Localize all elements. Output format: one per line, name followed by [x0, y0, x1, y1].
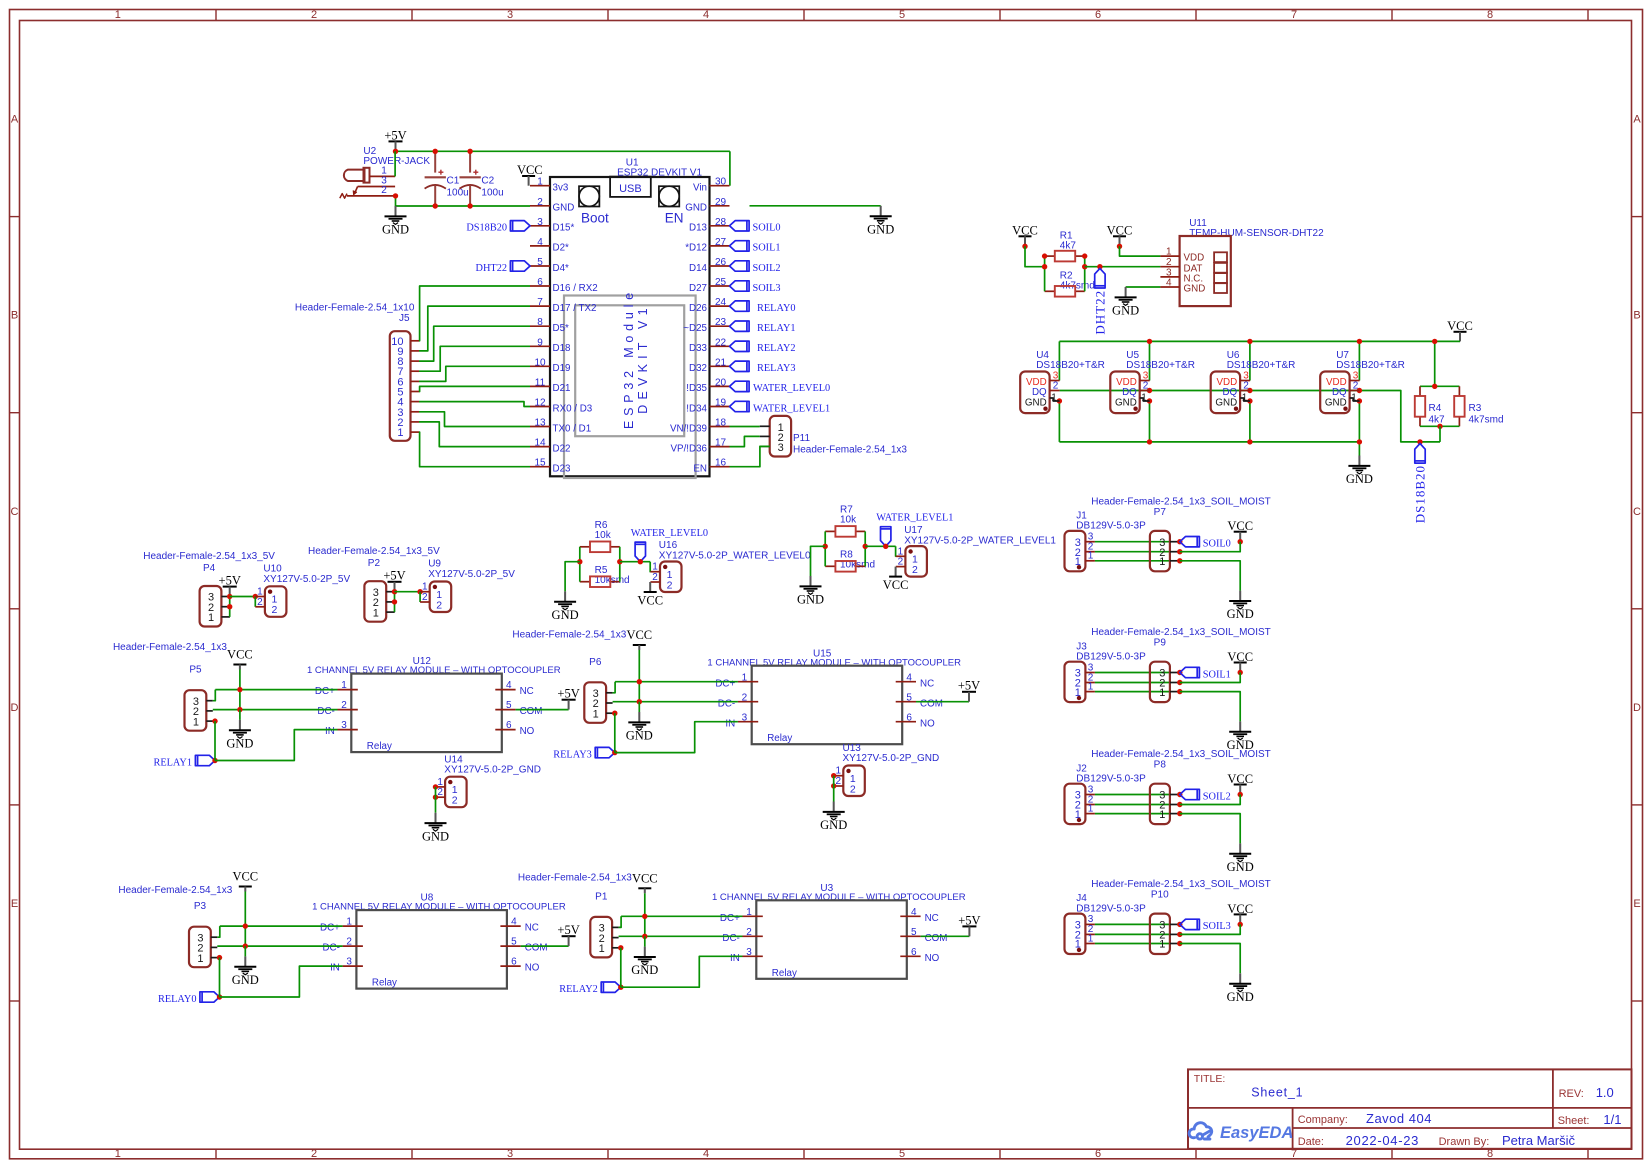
wire relay flag to IN [215, 730, 338, 761]
svg-text:14: 14 [534, 438, 546, 449]
wire header pin2 to DC- [213, 709, 338, 711]
svg-text:DS18B20: DS18B20 [466, 223, 507, 234]
svg-text:Date:: Date: [1298, 1136, 1324, 1148]
svg-text:COM: COM [920, 698, 943, 709]
svg-text:DS18B20+T&R: DS18B20+T&R [1227, 360, 1296, 371]
resistor R4 4k7 [1419, 386, 1421, 396]
svg-text:3: 3 [507, 1148, 513, 1160]
svg-text:Header-Female-2.54_1x3: Header-Female-2.54_1x3 [113, 642, 227, 653]
svg-text:EN: EN [665, 211, 684, 226]
svg-text:NO: NO [920, 718, 935, 729]
net flag DS18B20 (pull-up) [1415, 444, 1425, 464]
svg-text:NO: NO [525, 963, 540, 974]
svg-text:29: 29 [715, 197, 727, 208]
svg-text:U17: U17 [904, 525, 923, 536]
wire pin18 to P11.1 [730, 426, 760, 428]
svg-text:RELAY3: RELAY3 [553, 749, 592, 760]
svg-text:DS18B20+T&R: DS18B20+T&R [1036, 360, 1105, 371]
svg-text:2: 2 [1143, 381, 1149, 392]
svg-text:TEMP-HUM-SENSOR-DHT22: TEMP-HUM-SENSOR-DHT22 [1189, 228, 1324, 239]
wire pin17 to P11.2 [730, 436, 760, 446]
wire to connector pin1 [895, 546, 897, 556]
svg-text:P6: P6 [589, 657, 602, 668]
svg-text:1: 1 [1159, 556, 1165, 568]
svg-text:1: 1 [1088, 803, 1094, 814]
svg-text:1: 1 [373, 607, 379, 619]
svg-text:2: 2 [652, 572, 658, 583]
svg-text:1: 1 [1351, 393, 1357, 404]
wire U4 GND drop [1058, 401, 1060, 442]
svg-text:2: 2 [742, 692, 748, 703]
wire divider to ground [811, 546, 826, 576]
EN button [659, 186, 679, 206]
svg-text:+5V: +5V [958, 679, 980, 693]
svg-text:NC: NC [925, 913, 939, 924]
net flag SOIL2 [1180, 789, 1200, 799]
svg-text:IN: IN [725, 718, 735, 729]
svg-text:GND: GND [626, 729, 653, 743]
svg-text:VCC: VCC [883, 578, 909, 592]
svg-text:3: 3 [341, 720, 347, 731]
svg-text:5: 5 [899, 1148, 905, 1160]
wire VCC to row2 [1180, 924, 1240, 934]
net flag RELAY1 [195, 755, 215, 765]
svg-text:8: 8 [1487, 1148, 1493, 1160]
ground (relay VCC column) [244, 946, 246, 956]
svg-text:GND: GND [1346, 472, 1373, 486]
svg-text:Header-Female-2.54_1x3_SOIL_MO: Header-Female-2.54_1x3_SOIL_MOIST [1091, 879, 1271, 890]
svg-text:4: 4 [506, 680, 512, 691]
svg-text:Zavod 404: Zavod 404 [1366, 1111, 1432, 1126]
svg-text:6: 6 [537, 277, 543, 288]
wire pin29 GND [750, 205, 881, 207]
wire J to P row2 [1095, 682, 1170, 684]
svg-text:DB129V-5.0-3P: DB129V-5.0-3P [1076, 774, 1146, 785]
svg-text:R3: R3 [1469, 403, 1482, 414]
svg-text:SOIL0: SOIL0 [753, 223, 781, 234]
wire J5.9 to D17/TX2 [419, 306, 530, 351]
svg-text:2: 2 [422, 592, 428, 603]
wire to U10 [230, 596, 256, 598]
wire divider right link [864, 531, 866, 566]
svg-text:+5V: +5V [383, 569, 405, 583]
svg-text:P8: P8 [1154, 760, 1167, 771]
wire header pin2 to DC- [217, 945, 342, 947]
svg-text:+5V: +5V [219, 574, 241, 588]
wire VCC column [638, 682, 640, 702]
svg-text:VDD: VDD [1184, 253, 1205, 264]
wire header pin2 to DC- [613, 701, 738, 703]
svg-text:XY127V-5.0-2P_GND: XY127V-5.0-2P_GND [843, 753, 940, 764]
net flag SOIL1 [1180, 667, 1200, 677]
wire J to P row1 [1095, 691, 1170, 693]
svg-text:10k: 10k [595, 530, 612, 541]
svg-text:+5V: +5V [557, 923, 579, 937]
svg-text:IN: IN [730, 953, 740, 964]
connector P header (SOIL0) [1150, 531, 1170, 571]
wire R1/R2 right link [1084, 256, 1086, 291]
wire to connector pin2 [254, 597, 256, 607]
wire row1 to ground [1180, 814, 1240, 844]
svg-text:COM: COM [925, 933, 948, 944]
svg-text:P1: P1 [595, 891, 608, 902]
net flag RELAY3 [595, 747, 615, 757]
svg-text:NO: NO [520, 726, 535, 737]
svg-text:1: 1 [1088, 933, 1094, 944]
wire jack pin2 to GND rail [395, 196, 397, 206]
svg-text:GND: GND [820, 818, 847, 832]
svg-text:6: 6 [1095, 9, 1101, 21]
wire header pins common [229, 597, 231, 617]
svg-text:DC-: DC- [322, 943, 339, 954]
svg-text:Header-Female-2.54_1x3: Header-Female-2.54_1x3 [793, 445, 907, 456]
wire DQ bus [1060, 391, 1440, 442]
svg-text:5: 5 [537, 257, 543, 268]
wire U6 GND drop [1249, 401, 1251, 442]
ground (soil) [1239, 973, 1241, 983]
power flag VCC (divider) [649, 582, 651, 592]
svg-text:5: 5 [911, 927, 917, 938]
wire divider right link [619, 547, 621, 582]
svg-text:B: B [1633, 310, 1640, 322]
svg-text:P9: P9 [1154, 638, 1167, 649]
svg-text:8: 8 [1487, 9, 1493, 21]
svg-text:Relay: Relay [372, 978, 397, 989]
svg-text:XY127V-5.0-2P_WATER_LEVEL1: XY127V-5.0-2P_WATER_LEVEL1 [904, 535, 1056, 546]
wire header pin3 to DC+ [613, 682, 616, 693]
svg-text:D26: D26 [689, 303, 708, 314]
svg-text:2: 2 [311, 1148, 317, 1160]
svg-text:2: 2 [850, 783, 856, 795]
wire J to P row3 [1095, 672, 1170, 674]
svg-text:Relay: Relay [772, 968, 797, 979]
svg-text:2: 2 [381, 185, 387, 196]
svg-text:D13: D13 [689, 223, 708, 234]
svg-text:Header-Female-2.54_1x3: Header-Female-2.54_1x3 [118, 885, 232, 896]
svg-text:5: 5 [906, 692, 912, 703]
svg-text:4: 4 [911, 907, 917, 918]
svg-text:D19: D19 [553, 363, 571, 374]
net flag WATER_LEVEL0 (ESP32) [730, 381, 750, 391]
svg-text:2: 2 [746, 927, 752, 938]
svg-text:Header-Female-2.54_1x3: Header-Female-2.54_1x3 [512, 630, 626, 641]
wire J5.2 to D22 [419, 422, 530, 447]
wire header pin3 to DC+ [213, 690, 216, 701]
wire divider left link [579, 547, 581, 582]
wire row1 to ground [1180, 692, 1240, 722]
svg-text:1: 1 [341, 680, 347, 691]
svg-text:P3: P3 [194, 901, 207, 912]
svg-text:D15*: D15* [553, 223, 575, 234]
svg-text:5: 5 [899, 9, 905, 21]
svg-text:NC: NC [525, 923, 539, 934]
svg-text:Company:: Company: [1298, 1114, 1348, 1126]
svg-text:2: 2 [346, 937, 352, 948]
svg-text:VCC: VCC [227, 648, 253, 662]
svg-text:4: 4 [537, 237, 543, 248]
svg-text:Header-Female-2.54_1x3_5V: Header-Female-2.54_1x3_5V [143, 551, 275, 562]
svg-text:GND: GND [232, 973, 259, 987]
wire J to P row1 [1095, 813, 1170, 815]
svg-text:GND: GND [867, 222, 894, 236]
wire header pins common [394, 592, 396, 612]
svg-text:D18: D18 [553, 343, 572, 354]
svg-text:EasyEDA: EasyEDA [1220, 1124, 1293, 1142]
wire U7 GND drop [1358, 401, 1360, 442]
wire relay flag to IN [621, 956, 743, 987]
svg-text:P4: P4 [203, 563, 216, 574]
svg-text:+5V: +5V [958, 913, 980, 927]
svg-text:2: 2 [341, 700, 347, 711]
svg-text:2022-04-23: 2022-04-23 [1346, 1133, 1420, 1148]
net flag DS18B20 (pin D15*) [510, 221, 530, 231]
svg-text:XY127V-5.0-2P_5V: XY127V-5.0-2P_5V [263, 574, 350, 585]
svg-text:Petra Maršič: Petra Maršič [1502, 1133, 1575, 1148]
svg-text:4: 4 [703, 9, 709, 21]
connector P header (SOIL2) [1150, 784, 1170, 824]
wire header pin1 to relay flag [612, 711, 617, 716]
svg-text:27: 27 [715, 237, 727, 248]
svg-text:2: 2 [257, 597, 263, 608]
svg-text:1: 1 [397, 427, 403, 439]
wire COM to +5V [521, 945, 569, 947]
svg-text:J5: J5 [399, 313, 410, 324]
power flag VCC (divider) [895, 567, 897, 577]
svg-text:5: 5 [511, 937, 517, 948]
ground (divider) [810, 576, 812, 586]
svg-text:1: 1 [1159, 939, 1165, 951]
net flag DHT22 (pin D4*) [510, 261, 530, 271]
wire U7 VDD riser [1358, 341, 1360, 380]
svg-text:!D35: !D35 [686, 383, 707, 394]
wire connector pins common [831, 773, 836, 778]
wire J to P row1 [1095, 943, 1170, 945]
svg-text:6: 6 [911, 947, 917, 958]
svg-text:3: 3 [537, 217, 543, 228]
svg-text:SOIL3: SOIL3 [753, 283, 781, 294]
title block [1188, 1069, 1632, 1148]
svg-text:7: 7 [1291, 9, 1297, 21]
svg-text:!D34: !D34 [686, 403, 707, 414]
net flag SOIL3 (ESP32) [730, 281, 750, 291]
wire J to P row2 [1095, 551, 1170, 553]
svg-text:P5: P5 [189, 665, 202, 676]
svg-text:D16 / RX2: D16 / RX2 [553, 283, 598, 294]
wire to connector pin2 [419, 592, 421, 602]
svg-text:VP/!D36: VP/!D36 [671, 443, 708, 454]
net flag RELAY3 (ESP32) [730, 361, 750, 371]
svg-text:4: 4 [1166, 278, 1172, 289]
wire R4/R3 bottom bracket [1420, 425, 1459, 427]
wire VCC to row2 [1180, 795, 1240, 805]
svg-text:D14: D14 [689, 263, 708, 274]
wire DAT net [1085, 266, 1161, 268]
connector P header (SOIL3) [1150, 914, 1170, 954]
svg-text:10: 10 [534, 357, 546, 368]
svg-text:E: E [1633, 898, 1640, 910]
wire J to P row2 [1095, 804, 1170, 806]
ground (U14) [435, 813, 437, 823]
svg-text:GND: GND [1227, 607, 1254, 621]
svg-text:COM: COM [520, 706, 543, 717]
svg-text:GND: GND [1227, 990, 1254, 1004]
svg-text:WATER_LEVEL0: WATER_LEVEL0 [753, 383, 830, 394]
wire to connector pin1 [649, 562, 651, 572]
svg-text:1: 1 [1242, 393, 1248, 404]
svg-text:7: 7 [1291, 1148, 1297, 1160]
svg-text:7: 7 [537, 297, 543, 308]
svg-text:18: 18 [715, 418, 727, 429]
svg-text:RELAY2: RELAY2 [757, 343, 796, 354]
EasyEDA logo [1189, 1123, 1212, 1139]
ground (soil) [1239, 591, 1241, 601]
svg-text:Header-Female-2.54_1x3_5V: Header-Female-2.54_1x3_5V [308, 546, 440, 557]
wire J to P row2 [1095, 933, 1170, 935]
svg-text:GND: GND [685, 203, 707, 214]
svg-text:17: 17 [715, 438, 727, 449]
svg-text:XY127V-5.0-2P_GND: XY127V-5.0-2P_GND [444, 764, 541, 775]
svg-text:COM: COM [525, 943, 548, 954]
net flag WATER_LEVEL1 (ESP32) [730, 401, 750, 411]
svg-text:RELAY0: RELAY0 [158, 994, 197, 1005]
wire header pin3 to DC+ [217, 926, 220, 937]
svg-text:2: 2 [311, 9, 317, 21]
wire connector to ground [435, 797, 437, 813]
resistor R3 4k7smd [1458, 386, 1460, 396]
svg-text:IN: IN [330, 963, 340, 974]
svg-text:DC+: DC+ [315, 686, 335, 697]
ESP32 inner module outline [564, 296, 696, 479]
svg-text:16: 16 [715, 458, 727, 469]
svg-text:+5V: +5V [557, 687, 579, 701]
wire connector to ground [833, 786, 835, 802]
svg-text:RELAY2: RELAY2 [559, 984, 598, 995]
svg-text:1: 1 [593, 708, 599, 720]
svg-text:Header-Female-2.54_1x10: Header-Female-2.54_1x10 [295, 303, 415, 314]
svg-text:1: 1 [1051, 393, 1057, 404]
svg-text:D32: D32 [689, 363, 707, 374]
net flag SOIL2 (ESP32) [730, 261, 750, 271]
svg-text:DB129V-5.0-3P: DB129V-5.0-3P [1076, 652, 1146, 663]
svg-text:E: E [11, 898, 18, 910]
net flag DHT22 (sensor) [1095, 268, 1105, 288]
svg-text:11: 11 [535, 377, 546, 388]
svg-text:RELAY0: RELAY0 [757, 303, 796, 314]
net flag RELAY2 [601, 982, 621, 992]
svg-text:4: 4 [906, 672, 912, 683]
svg-text:D5*: D5* [553, 323, 570, 334]
svg-text:DQ: DQ [1222, 387, 1237, 398]
svg-text:1.0: 1.0 [1596, 1085, 1614, 1100]
svg-text:DC-: DC- [718, 698, 735, 709]
svg-text:P7: P7 [1154, 507, 1167, 518]
svg-text:RX0 / D3: RX0 / D3 [553, 403, 593, 414]
svg-text:DC+: DC+ [715, 678, 735, 689]
svg-text:DQ: DQ [1032, 387, 1047, 398]
ground (relay VCC column) [638, 702, 640, 712]
svg-text:DHT22: DHT22 [476, 263, 507, 274]
svg-text:A: A [1633, 114, 1641, 126]
wire J to P row3 [1095, 541, 1170, 543]
ground (soil) [1239, 843, 1241, 853]
svg-text:5: 5 [506, 700, 512, 711]
svg-text:1: 1 [1159, 687, 1165, 699]
svg-text:WATER_LEVEL0: WATER_LEVEL0 [631, 528, 708, 539]
svg-text:GND: GND [1325, 398, 1347, 409]
svg-text:ESP32 Module: ESP32 Module [622, 288, 636, 429]
svg-text:Header-Female-2.54_1x3: Header-Female-2.54_1x3 [518, 873, 632, 884]
svg-text:24: 24 [715, 297, 727, 308]
svg-text:DC-: DC- [317, 706, 334, 717]
wire GND bus drop to ground [1358, 442, 1360, 456]
svg-text:TITLE:: TITLE: [1194, 1073, 1226, 1085]
svg-text:2: 2 [436, 599, 442, 611]
svg-text:15: 15 [534, 458, 546, 469]
svg-text:C2: C2 [481, 175, 494, 186]
svg-text:1: 1 [742, 672, 748, 683]
svg-text:GND: GND [1025, 398, 1047, 409]
net flag RELAY0 [200, 992, 220, 1002]
svg-text:~D25: ~D25 [683, 323, 707, 334]
wire header pin1 to relay flag [217, 955, 222, 960]
wire row1 to ground [1180, 561, 1240, 591]
svg-text:+5V: +5V [384, 128, 406, 142]
wire VCC to resistor node [1025, 246, 1045, 266]
svg-text:6: 6 [511, 957, 517, 968]
svg-text:D17 / TX2: D17 / TX2 [553, 303, 597, 314]
svg-text:4k7: 4k7 [1429, 415, 1446, 426]
svg-text:12: 12 [534, 398, 546, 409]
ESP32 left pins [530, 185, 550, 187]
svg-text:SOIL3: SOIL3 [1203, 921, 1231, 932]
svg-text:EN: EN [693, 464, 707, 475]
svg-text:DQ: DQ [1122, 387, 1137, 398]
svg-text:1: 1 [193, 716, 199, 728]
net flag SOIL0 [1180, 537, 1200, 547]
ground (relay VCC column) [644, 936, 646, 946]
net flag SOIL0 (ESP32) [730, 221, 750, 231]
wire R1/R2 left link [1044, 256, 1046, 291]
svg-text:P2: P2 [368, 558, 381, 569]
wire VCC to U11 pin1 [1120, 246, 1161, 256]
wire U5 GND drop [1149, 401, 1151, 442]
svg-text:U16: U16 [659, 540, 678, 551]
wire J to P row1 [1095, 560, 1170, 562]
wire COM to +5V [921, 935, 970, 937]
wire U5 VDD riser [1149, 341, 1151, 380]
svg-text:28: 28 [715, 217, 727, 228]
wire VCC to row2 [1180, 673, 1240, 683]
svg-text:D21: D21 [553, 383, 571, 394]
svg-text:USB: USB [619, 183, 642, 195]
svg-text:SOIL1: SOIL1 [1203, 669, 1231, 680]
svg-text:13: 13 [534, 418, 546, 429]
svg-text:3: 3 [346, 957, 352, 968]
svg-text:D23: D23 [553, 464, 572, 475]
svg-text:GND: GND [1115, 398, 1137, 409]
wire row1 to ground [1180, 944, 1240, 974]
svg-text:*D12: *D12 [685, 243, 707, 254]
svg-text:VCC: VCC [626, 628, 652, 642]
svg-text:1: 1 [197, 953, 203, 965]
wire connector pins common [433, 784, 438, 789]
svg-text:RELAY1: RELAY1 [757, 323, 796, 334]
svg-text:REV:: REV: [1559, 1088, 1584, 1100]
svg-text:30: 30 [715, 177, 727, 188]
svg-text:Header-Female-2.54_1x3_SOIL_MO: Header-Female-2.54_1x3_SOIL_MOIST [1091, 496, 1271, 507]
svg-text:D22: D22 [553, 443, 571, 454]
svg-text:1: 1 [1166, 247, 1172, 258]
